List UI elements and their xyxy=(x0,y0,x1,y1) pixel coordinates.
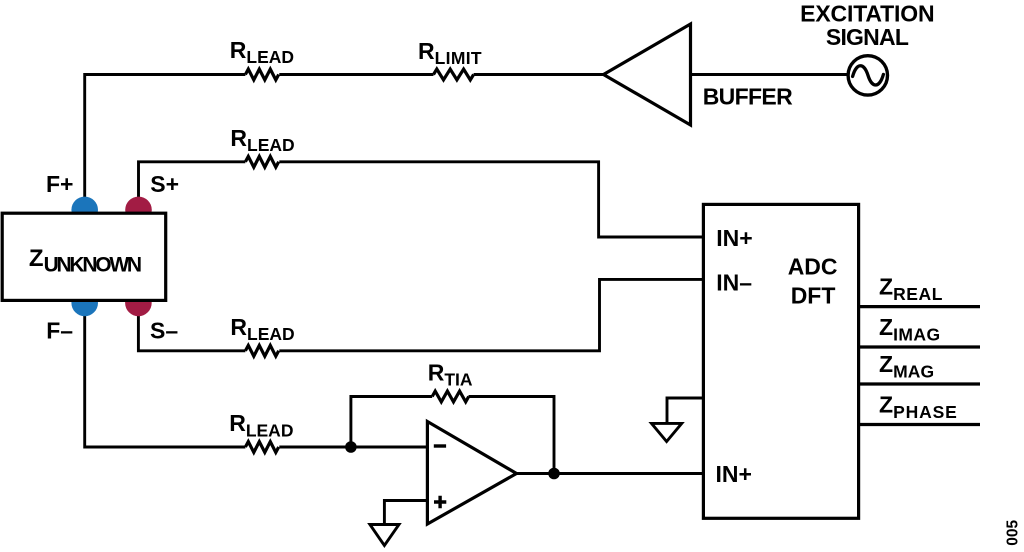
wire op-amp noninverting input to ground xyxy=(384,501,427,525)
node F- terminal (blue) xyxy=(71,290,98,317)
svg-text:S–: S– xyxy=(150,318,178,344)
wire F+ vertical and top horizontal to R_LEAD1 xyxy=(85,75,246,209)
wire op-amp output to ADC IN+ (bottom) xyxy=(517,472,704,475)
resistor R_TIA xyxy=(428,359,473,402)
svg-text:SIGNAL: SIGNAL xyxy=(826,24,909,50)
svg-text:IN+: IN+ xyxy=(716,225,752,251)
svg-text:BUFFER: BUFFER xyxy=(703,84,793,110)
op-amp U2 TIA xyxy=(427,422,516,525)
svg-text:EXCITATION: EXCITATION xyxy=(800,1,935,27)
svg-text:ZIMAG: ZIMAG xyxy=(879,314,940,345)
svg-text:F+: F+ xyxy=(46,171,73,197)
svg-text:IN+: IN+ xyxy=(716,461,752,487)
svg-text:RLEAD: RLEAD xyxy=(230,314,294,344)
wire R_LEAD3 to ADC IN- pin xyxy=(279,279,703,350)
wire output Z_REAL xyxy=(859,305,980,308)
ground (op-amp + input) xyxy=(370,525,399,546)
wire R_LIMIT to buffer input (apex) xyxy=(474,73,604,76)
impedance Z_UNKNOWN box xyxy=(2,213,166,300)
resistor R_LEAD (S+ sense lead) xyxy=(230,125,294,167)
wire S+ vertical and horizontal to R_LEAD2 xyxy=(139,162,246,208)
node junction at TIA summing point xyxy=(345,441,357,453)
wire R_LEAD4 to op-amp inverting input xyxy=(279,446,427,449)
wire buffer right edge to excitation source xyxy=(691,73,848,76)
wire S- vertical and horizontal to R_LEAD3 xyxy=(138,305,245,351)
op-amp U1 buffer amplifier xyxy=(604,24,794,125)
svg-text:DFT: DFT xyxy=(791,283,836,309)
resistor R_LIMIT xyxy=(418,38,482,80)
wire output Z_PHASE xyxy=(859,423,980,426)
svg-text:ZPHASE: ZPHASE xyxy=(879,391,957,422)
wire feedback up from summing node to R_TIA xyxy=(351,397,432,448)
svg-text:S+: S+ xyxy=(150,171,179,197)
ADC DFT block U3 xyxy=(703,204,858,518)
svg-text:RLIMIT: RLIMIT xyxy=(418,38,482,68)
svg-text:005: 005 xyxy=(1005,519,1022,545)
wire R_LEAD2 to ADC IN+ pin xyxy=(279,162,703,237)
wire output Z_IMAG xyxy=(859,345,980,348)
resistor R_LEAD (S- sense lead) xyxy=(230,314,294,356)
svg-text:F–: F– xyxy=(46,318,73,344)
svg-text:IN–: IN– xyxy=(716,270,752,296)
node S+ terminal (red) xyxy=(125,197,152,224)
svg-text:RLEAD: RLEAD xyxy=(230,37,294,67)
resistor R_LEAD (top excitation lead) xyxy=(230,37,294,80)
svg-text:ADC: ADC xyxy=(788,254,838,280)
excitation signal source V1 xyxy=(800,1,935,96)
wire between R_LEAD1 and R_LIMIT xyxy=(279,73,433,76)
node F+ terminal (blue) xyxy=(71,197,98,224)
wire ADC reference pin to ground xyxy=(667,398,704,423)
node S- terminal (red) xyxy=(125,290,152,317)
svg-text:ZMAG: ZMAG xyxy=(879,351,934,382)
wire output Z_MAG xyxy=(859,382,980,385)
ground (ADC input) xyxy=(652,423,682,441)
svg-text:RTIA: RTIA xyxy=(428,359,473,389)
node junction at op-amp output xyxy=(548,468,560,480)
wire F- vertical and horizontal to R_LEAD4 xyxy=(85,305,246,447)
svg-text:ZREAL: ZREAL xyxy=(879,274,943,305)
resistor R_LEAD (F- force lead) xyxy=(229,410,293,453)
svg-text:RLEAD: RLEAD xyxy=(230,125,294,155)
svg-text:RLEAD: RLEAD xyxy=(229,410,293,441)
wire R_TIA down to op-amp output xyxy=(469,397,555,474)
